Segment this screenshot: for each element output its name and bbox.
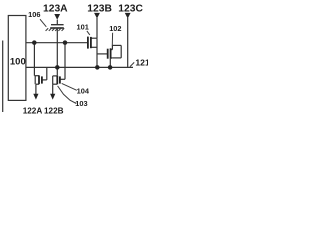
svg-text:106: 106 xyxy=(28,10,40,19)
svg-text:101: 101 xyxy=(77,23,89,32)
svg-text:123A: 123A xyxy=(43,4,68,15)
svg-text:104: 104 xyxy=(77,86,90,95)
svg-text:122B: 122B xyxy=(44,106,64,115)
svg-text:123B: 123B xyxy=(87,4,112,15)
svg-text:102: 102 xyxy=(109,24,121,33)
svg-text:123C: 123C xyxy=(118,4,143,15)
svg-text:122A: 122A xyxy=(23,106,43,115)
svg-text:100: 100 xyxy=(10,56,26,67)
svg-text:103: 103 xyxy=(75,99,87,108)
svg-text:121: 121 xyxy=(135,57,148,67)
